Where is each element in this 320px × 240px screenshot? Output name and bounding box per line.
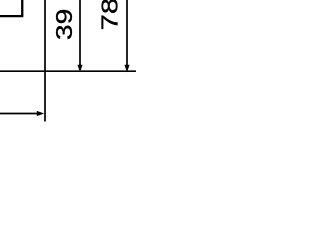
dimension line horizontal with right arrow [0, 113, 38, 115]
wire extension line vertical [44, 0, 46, 122]
svg-text:39: 39 [51, 9, 77, 41]
wire object edge horizontal [0, 70, 136, 72]
svg-text:78: 78 [96, 0, 122, 30]
object outline corner (thick) [0, 0, 22, 16]
dimension line 39 [79, 0, 81, 66]
dimension line 78 [126, 0, 128, 66]
